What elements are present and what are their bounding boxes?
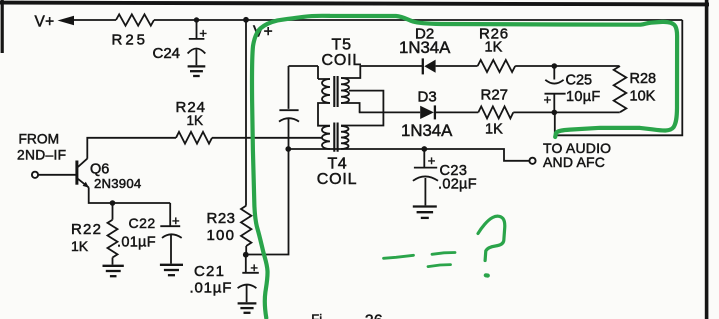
transformer T4 primary winding [322, 126, 330, 149]
svg-text:T4: T4 [328, 155, 348, 172]
wire T5 secondary tap to T4 secondary [341, 91, 383, 126]
wire V+ to R23 [245, 20, 247, 206]
svg-text:C24: C24 [153, 45, 181, 62]
svg-text:+: + [544, 92, 552, 107]
V+ arrow [58, 16, 75, 26]
ground C22 [160, 264, 183, 266]
svg-text:R27: R27 [481, 87, 509, 104]
svg-text:+: + [428, 153, 436, 168]
wire input to base [38, 174, 76, 176]
node V+/R23 junction [243, 17, 249, 23]
svg-text:.01µF: .01µF [190, 280, 233, 297]
svg-text:1K: 1K [485, 122, 503, 138]
node emitter/R22 [110, 200, 116, 206]
transistor Q6 [75, 161, 78, 185]
svg-text:COIL: COIL [322, 52, 363, 69]
input terminal circle [32, 172, 38, 178]
svg-text:R22: R22 [71, 221, 102, 238]
wire T5-T4 left link [318, 103, 330, 126]
node C24 junction [194, 17, 199, 22]
transformer T4 secondary winding [341, 126, 349, 149]
wire T5 secondary top to D2 [341, 66, 422, 78]
transformer T5 secondary winding [341, 78, 349, 103]
svg-text:10µF: 10µF [566, 89, 601, 105]
svg-text:T5: T5 [332, 36, 352, 53]
svg-text:2ND–IF: 2ND–IF [17, 148, 66, 163]
marker annotation main loop [252, 16, 677, 318]
svg-text:1N34A: 1N34A [401, 121, 453, 140]
ground C24 [188, 65, 206, 67]
ground R22 [103, 265, 124, 267]
diode D3 [359, 111, 420, 113]
svg-text:COIL: COIL [317, 171, 358, 188]
node C23 junction [421, 146, 427, 152]
svg-text:10K: 10K [630, 89, 656, 105]
capacitor C24 [188, 20, 206, 65]
T5 core [334, 76, 337, 107]
svg-text:AND AFC: AND AFC [543, 154, 605, 170]
page border left [1, 0, 4, 53]
svg-text:.01µF: .01µF [117, 235, 156, 251]
wire R27 to R28 bottom [513, 111, 620, 113]
svg-text:26: 26 [365, 313, 383, 319]
marker dash 2 [432, 253, 455, 255]
marker dash 3 [428, 265, 451, 267]
capacitor C21 [238, 255, 259, 303]
svg-text:R25: R25 [112, 32, 149, 49]
ground C23 [413, 205, 437, 207]
marker question mark [478, 216, 505, 260]
svg-text:C25: C25 [566, 72, 593, 88]
T5 tuning capacitor [279, 66, 299, 149]
resistor R28 [614, 66, 627, 112]
output terminal circle [529, 158, 535, 164]
resistor R23 [241, 206, 251, 246]
svg-text:+: + [199, 25, 207, 40]
wire T5 secondary bottom to D3 line [341, 103, 360, 112]
wire R23 node to tap node [246, 149, 289, 255]
svg-text:C21: C21 [194, 263, 225, 280]
page border right [705, 0, 709, 319]
svg-text:1N34A: 1N34A [399, 38, 451, 57]
page border top [0, 3, 709, 5]
resistor R22 [112, 203, 114, 220]
node detector tap junction [285, 146, 291, 152]
svg-text:C22: C22 [129, 215, 156, 231]
svg-text:1K: 1K [71, 238, 89, 254]
T4 core [334, 123, 337, 152]
capacitor C23 [413, 149, 438, 205]
svg-text:+: + [250, 260, 258, 275]
wire V+ rail [73, 19, 682, 21]
svg-text:1K: 1K [485, 40, 503, 56]
marker question dot [486, 273, 488, 278]
svg-text:Q6: Q6 [90, 162, 109, 178]
node R23/C21 junction [243, 252, 249, 258]
node C25 top [552, 63, 558, 69]
marker dash 1 [384, 255, 414, 258]
svg-text:2N3904: 2N3904 [94, 176, 141, 191]
transformer T5 primary winding [322, 79, 330, 103]
svg-text:V+: V+ [35, 14, 55, 31]
svg-text:100: 100 [207, 227, 236, 244]
svg-text:1K: 1K [187, 113, 204, 128]
svg-text:R23: R23 [207, 210, 236, 227]
resistor R24 [176, 132, 212, 144]
capacitor C25 [545, 66, 566, 112]
ground C21 [238, 302, 257, 304]
svg-text:FROM: FROM [19, 131, 60, 146]
resistor R27 [478, 106, 513, 118]
wire R24 to T4 tap [212, 137, 323, 139]
resistor R26 [478, 60, 516, 72]
wire collector up [87, 138, 176, 159]
svg-text:+: + [172, 213, 180, 228]
svg-text:Fi: Fi [311, 311, 322, 319]
diode D2 [422, 58, 424, 74]
wire R26 to R28 [515, 65, 619, 67]
resistor R25 [116, 14, 154, 25]
wire detector common line [288, 149, 529, 161]
capacitor C22 [160, 203, 181, 264]
svg-text:R28: R28 [630, 71, 657, 87]
svg-text:.02µF: .02µF [438, 177, 477, 193]
wire emitter down [89, 187, 171, 203]
wire V+ right leg [555, 20, 683, 135]
wire T5 primary top stub [289, 66, 331, 79]
node C25 bottom [552, 110, 558, 116]
svg-text:D3: D3 [418, 89, 437, 106]
